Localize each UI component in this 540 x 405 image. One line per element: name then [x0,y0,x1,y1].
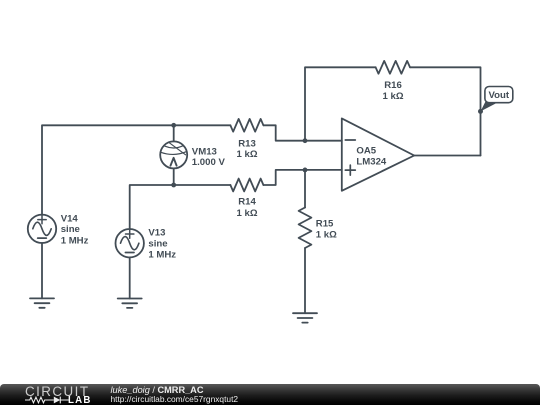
svg-text:1 kΩ: 1 kΩ [236,149,257,160]
source V13 [116,229,144,257]
Vout flag tail [481,102,500,112]
svg-text:VM13: VM13 [192,146,217,157]
ground for R15 [293,313,317,322]
wire R16 to output vertical [410,67,481,155]
wire R13 to op-amp inverting input [263,125,341,140]
ground for V14 [30,298,54,307]
op-amp OA5 [342,118,414,190]
Vout flag box [485,87,513,103]
node dot non-inverting input [303,168,308,173]
resistor R14 [230,179,263,192]
ground for V13 [118,299,142,308]
CircuitLab logo schematic: wire, resistor, diode [25,395,70,405]
svg-text:sine: sine [61,224,80,235]
resistor R15 [299,208,312,249]
svg-text:1 MHz: 1 MHz [148,250,176,261]
footer bar [0,384,540,405]
resistor R16 [376,61,410,74]
svg-text:1.000 V: 1.000 V [192,157,226,168]
wire V13 to ground [129,257,131,298]
wire op-amp output [414,155,480,157]
voltmeter VM13 [160,141,187,168]
svg-text:R15: R15 [316,219,334,230]
wire voltmeter stub top [173,125,175,141]
node dot Vout tap [478,109,483,114]
wire voltmeter stub bottom [173,168,175,185]
svg-text:R16: R16 [384,80,402,91]
svg-text:V13: V13 [148,228,165,239]
svg-text:1 kΩ: 1 kΩ [382,91,403,102]
svg-text:OA5: OA5 [356,145,376,156]
wire R14 to op-amp non-inverting input [263,170,341,185]
wire V14 to ground [41,243,43,298]
svg-text:V14: V14 [61,213,79,224]
footer credit line 1 [110,0,112,1]
CircuitLab logo text CIRCUIT [25,387,89,396]
svg-text:LM324: LM324 [356,156,387,167]
svg-text:R14: R14 [238,197,256,208]
node dot VM13 top [171,123,176,128]
wire non-inverting node down to R15 [304,170,306,208]
svg-text:R13: R13 [238,138,256,149]
svg-text:1 MHz: 1 MHz [61,235,89,246]
svg-text:1 kΩ: 1 kΩ [316,229,337,240]
footer credit line 2 [111,394,239,404]
node dot inverting input [303,138,308,143]
wire bottom net: V13 riser and horizontal run to R14 [130,185,231,229]
resistor R13 [230,119,263,132]
svg-text:sine: sine [148,239,167,250]
source V14 [28,215,56,243]
node dot VM13 bottom [171,183,176,188]
svg-text:Vout: Vout [488,90,509,101]
wire feedback vertical from inverting node [305,67,376,140]
svg-text:1 kΩ: 1 kΩ [236,208,257,219]
wire R15 to ground [304,248,306,313]
CircuitLab logo text LAB [68,397,92,404]
wire top net: V14 riser and horizontal run to R13 [42,125,230,214]
